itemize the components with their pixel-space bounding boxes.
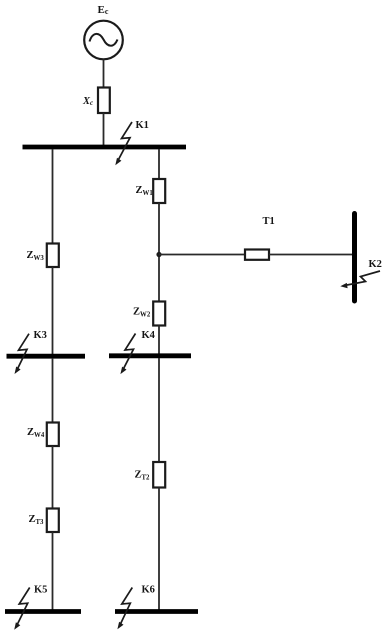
reactor Xc <box>98 88 110 114</box>
svg-text:K3: K3 <box>34 330 47 341</box>
fault K1 <box>115 122 132 165</box>
wire T1 to busbar K2 <box>269 254 353 256</box>
fault K5 <box>14 588 30 630</box>
busbar K4 <box>109 353 191 358</box>
svg-text:ZW3: ZW3 <box>27 250 45 262</box>
impedance Zw4 <box>47 423 59 447</box>
busbar K5 <box>5 609 81 614</box>
impedance Zt3 <box>47 509 59 533</box>
wire Xc to busbar1 <box>103 113 105 146</box>
wire busbar1 to Zw3 <box>52 149 54 244</box>
svg-text:ZW4: ZW4 <box>27 427 45 439</box>
svg-text:K5: K5 <box>34 585 47 596</box>
source Ec <box>84 21 123 60</box>
svg-text:Xc: Xc <box>82 96 93 107</box>
svg-text:ZW1: ZW1 <box>136 185 154 197</box>
svg-text:K6: K6 <box>142 585 155 596</box>
impedance Zw1 <box>153 179 165 203</box>
wire busbar K3 to Zw4 <box>52 358 54 423</box>
svg-text:ZW2: ZW2 <box>133 307 151 319</box>
busbar K6 <box>115 609 198 614</box>
svg-text:Ec: Ec <box>98 4 109 16</box>
wire busbar K4 to Zt2 <box>158 358 160 463</box>
wire Zw2 to busbar K4 <box>158 326 160 356</box>
wire node to T1 <box>159 254 245 256</box>
wire source to Xc <box>103 59 105 88</box>
node junction <box>156 252 161 257</box>
wire Zt2 to busbar K6 <box>158 488 160 611</box>
svg-text:ZT3: ZT3 <box>29 514 45 526</box>
impedance Zw2 <box>153 302 165 326</box>
svg-text:K4: K4 <box>142 330 156 341</box>
transformer T1 <box>245 250 269 260</box>
busbar K3 <box>7 354 86 359</box>
svg-text:K1: K1 <box>136 120 149 131</box>
busbar 1 (K1 bus) <box>23 145 187 150</box>
fault K4 <box>120 334 135 375</box>
wire Zw1 to Zw2 through node <box>158 203 160 302</box>
impedance Zt2 <box>153 462 165 488</box>
fault K2 <box>340 271 380 288</box>
svg-text:T1: T1 <box>263 216 275 227</box>
fault K3 <box>15 334 30 374</box>
wire busbar1 to Zw1 <box>158 149 160 180</box>
impedance Zw3 <box>47 244 59 268</box>
wire Zw4 to Zt3 <box>52 446 54 509</box>
svg-text:ZT2: ZT2 <box>135 470 151 482</box>
busbar K2 <box>352 214 357 302</box>
fault K6 <box>117 588 132 630</box>
svg-text:K2: K2 <box>369 259 382 270</box>
wire Zt3 to busbar K5 <box>52 532 54 610</box>
wire Zw3 to busbar K3 <box>52 267 54 355</box>
